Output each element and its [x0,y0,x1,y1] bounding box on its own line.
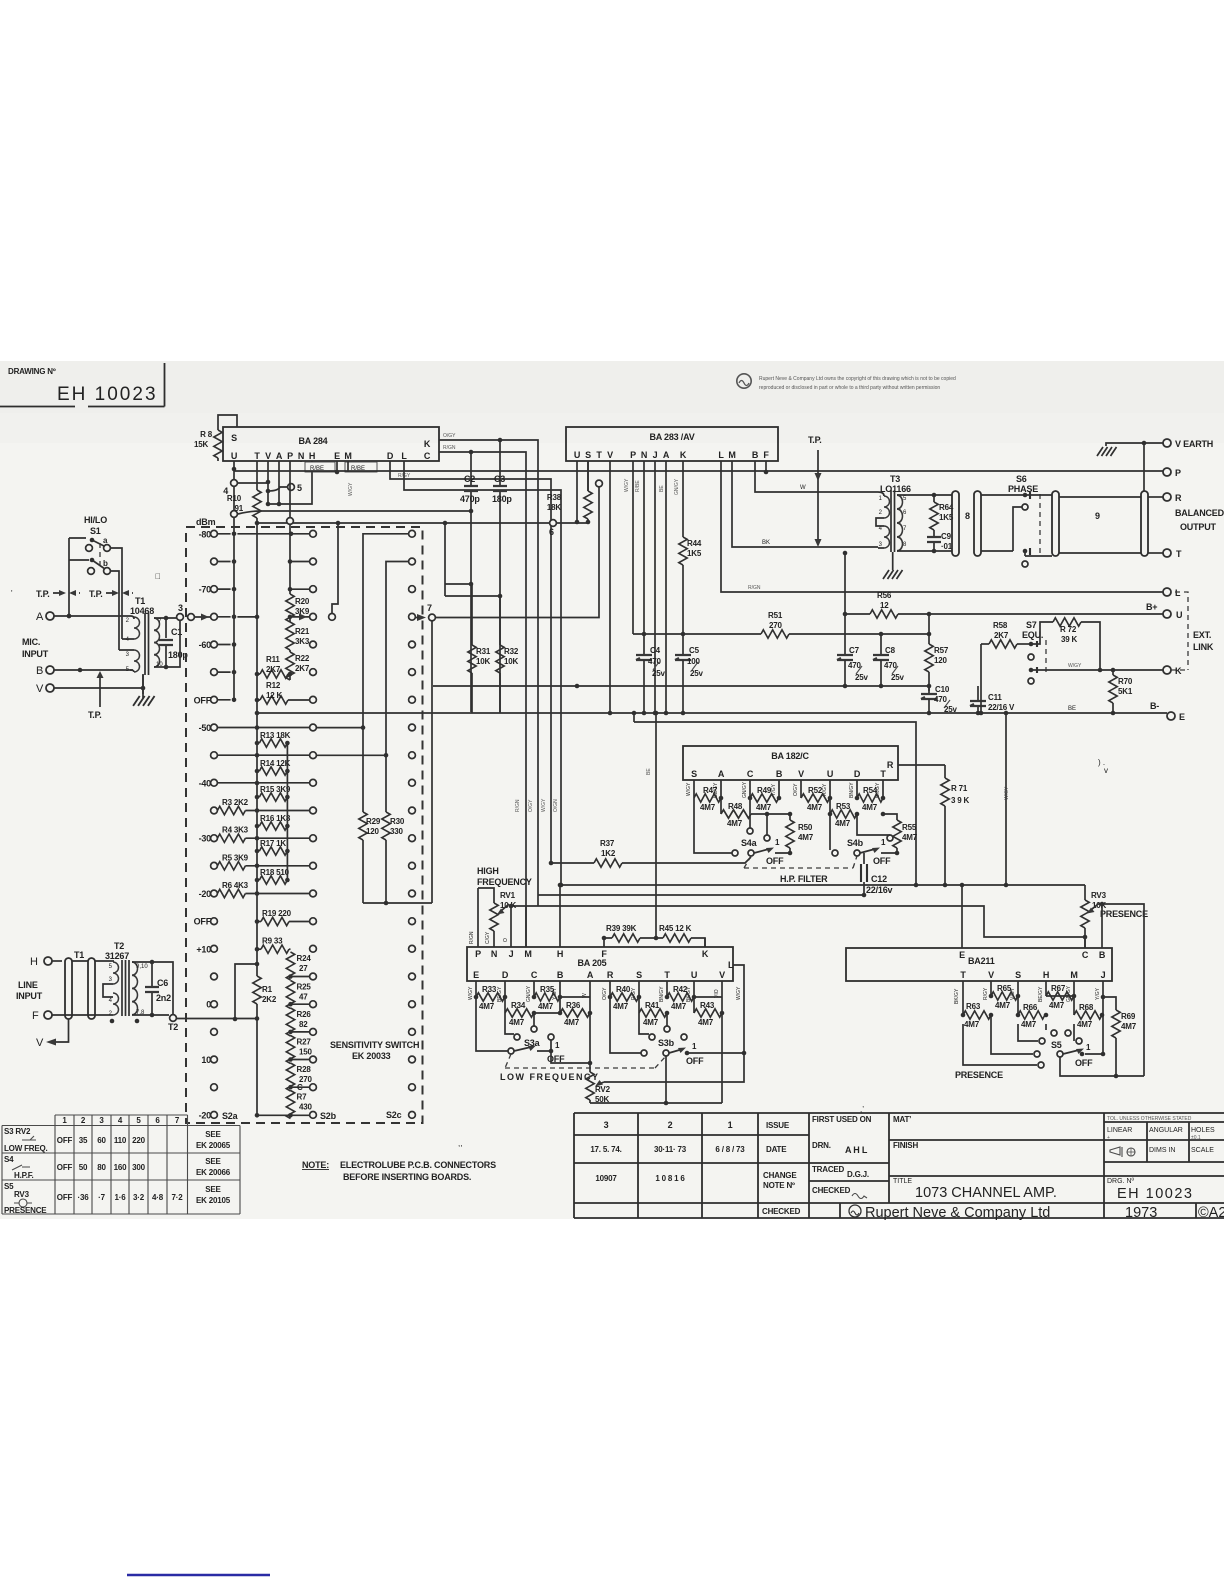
vertical return x432 [431,621,433,903]
wire node6 to U line [556,522,577,524]
svg-text:R38: R38 [547,493,562,502]
svg-text:S: S [1015,970,1021,980]
BA283 pin letters [574,450,770,460]
svg-text:2K7: 2K7 [295,664,310,673]
svg-text:C11: C11 [988,693,1002,702]
wire S5 bottom loop [1060,1057,1144,1076]
svg-text:R: R [887,760,894,770]
B- long bus [257,712,1167,714]
resistor R47 4M7 [694,780,721,812]
T3 primary winding upper [884,496,890,518]
resistor R48 4M7 [719,796,751,828]
switch S1b [88,558,111,575]
wire x845 down to C7 [844,614,846,655]
svg-text:7: 7 [427,603,432,613]
svg-text:C9: C9 [941,532,952,541]
svg-text:SEE: SEE [205,1185,221,1194]
svg-text:ISSUE: ISSUE [766,1121,790,1130]
wire R10 bottom to circle 6 line [257,518,553,530]
svg-text:R 72: R 72 [1060,625,1077,634]
resistor R28 270 [286,1063,312,1091]
boxed label R/BE under N H [305,462,335,472]
svg-text:4M7: 4M7 [564,1018,580,1027]
svg-text:R16 1K8: R16 1K8 [260,814,291,823]
svg-text:T: T [880,769,886,779]
wire T line junction down to B+ line [844,553,846,614]
svg-text:B: B [36,665,43,677]
bottom row wire to S2b [257,1114,310,1116]
wire T2 feed into bus [177,1018,257,1020]
svg-text:B: B [776,769,783,779]
svg-text:R7: R7 [297,1093,308,1102]
svg-text:4M7: 4M7 [807,803,823,812]
svg-text:M: M [728,450,735,460]
row S3 RV2 label [4,1127,48,1153]
resistor R14 12K [255,759,291,775]
svg-text:R66: R66 [1023,1003,1038,1012]
bus y895 [511,895,864,906]
svg-text:-70: -70 [199,585,212,595]
wire V pin down [267,461,269,504]
wire R50 bottom into S4a node [789,848,791,853]
test circle on U line [231,480,238,487]
wire L pin to O/GN vertical [404,461,561,885]
svg-text:SENSITIVITY SWITCH: SENSITIVITY SWITCH [330,1040,419,1050]
ladder right rail [286,743,288,880]
svg-text:K: K [680,450,687,460]
svg-text:4M7: 4M7 [1121,1022,1137,1031]
dates row [590,1145,745,1154]
wire T terminal [1148,552,1163,554]
svg-text:BE: BE [646,768,652,775]
node 6 circle [550,520,557,527]
resistor R16 1K8 [255,814,291,830]
row 11 circles [199,834,416,844]
resistor R56 12 on B+ line [845,591,1163,618]
svg-text:R13 18K: R13 18K [260,731,291,740]
svg-text:-20: -20 [199,889,212,899]
svg-text:4M7: 4M7 [698,1018,714,1027]
resistor R24 27 [286,952,311,980]
svg-text:v: v [1104,766,1108,775]
svg-text:L: L [718,450,724,460]
svg-text:120: 120 [934,656,947,665]
svg-text:82: 82 [299,1020,308,1029]
row -80 wire across to right circle [237,533,309,535]
svg-text:S4a: S4a [741,838,758,848]
arrow T.P. left [53,592,80,594]
wire F pin to P line [765,461,767,472]
T1 core [145,613,149,675]
wire from U circle514 to C2 [238,511,471,514]
switch S5 [1057,1043,1103,1068]
svg-text:U: U [827,769,833,779]
svg-text:35: 35 [79,1136,88,1145]
resistor R19 220 [255,909,310,926]
row 5 circles [211,669,416,676]
BA284 bottom pin letters [231,451,408,461]
wire E pin down to long line [336,461,338,472]
svg-text:R4 3K3: R4 3K3 [222,826,249,835]
terminal E [1167,712,1175,720]
svg-text:4M7: 4M7 [727,819,743,828]
svg-text:R1: R1 [262,985,273,994]
resistor R67 4M7 [1044,981,1074,1017]
svg-text:S: S [691,769,697,779]
resistor R13 18K [255,731,291,747]
svg-text:BK: BK [762,540,770,546]
svg-text:J: J [653,450,658,460]
capacitor C9 .01 [927,530,953,553]
svg-text:OFF: OFF [686,1056,704,1066]
row 17 circles [206,1000,415,1010]
wire RV2 bottom rail [590,1102,722,1104]
wire J pin down [1102,981,1104,1054]
svg-text:4M7: 4M7 [671,1002,687,1011]
wire L pin bracket loop [608,965,744,1082]
BA182 pin letters [691,769,886,779]
svg-text:430: 430 [299,1103,312,1112]
svg-text:R47: R47 [703,786,718,795]
svg-text:-40: -40 [199,778,212,788]
row 14 circles [194,917,416,927]
svg-text:OFF: OFF [873,856,891,866]
svg-text:R41: R41 [645,1001,660,1010]
svg-text:H.P.F.: H.P.F. [14,1171,34,1180]
svg-text:SEE: SEE [205,1157,221,1166]
svg-text:reproduced or disclosed in pa: reproduced or disclosed in part or whole… [759,385,940,391]
svg-text:-30: -30 [199,834,212,844]
svg-text:R10: R10 [227,494,242,503]
svg-text:B-: B- [1150,701,1159,711]
svg-text:BA 284: BA 284 [299,436,328,446]
wire rows -50/-40 region across [217,728,309,783]
svg-text:HIGH: HIGH [477,866,499,876]
svg-text:R34: R34 [511,1001,526,1010]
svg-text:R 8: R 8 [200,430,213,439]
ground under T3 [883,570,903,579]
svg-text:470: 470 [934,695,947,704]
wire M pin down [347,461,349,472]
terminal R [1163,493,1171,501]
svg-text:EK 20033: EK 20033 [352,1051,391,1061]
wire R pin to R71 [898,764,945,766]
svg-text:C5: C5 [689,646,700,655]
junction A line RV2 [588,1061,593,1066]
wire P pin down through rows [289,461,291,594]
svg-text:LOW FREQ.: LOW FREQ. [4,1144,48,1153]
svg-text:NOTE Nº: NOTE Nº [763,1181,795,1190]
T3 core [891,490,895,552]
svg-text:V: V [719,970,725,980]
wire M pin tail circles [639,1013,649,1034]
resistor R10 91 [227,490,261,518]
row S5 values [57,1193,183,1202]
svg-text:S5: S5 [4,1182,14,1191]
svg-text:4M7: 4M7 [479,1002,495,1011]
svg-text:4M7: 4M7 [756,803,772,812]
resistor R34 4M7 [503,981,534,1027]
connector circle 5 [288,484,295,491]
svg-text:T.P.: T.P. [36,589,50,599]
svg-text:R19 220: R19 220 [262,909,292,918]
wire K to long vertical O/GY [439,440,538,906]
svg-text:M: M [1070,970,1077,980]
svg-text:4M7: 4M7 [902,833,918,842]
amplifier card BA283/AV [566,427,778,461]
wire M pin down to T3 BK line [732,461,878,547]
resistor R63 4M7 [961,981,991,1029]
svg-text:R52: R52 [808,786,823,795]
resistor R36 4M7 [534,981,592,1027]
resistor R27 150 [286,1036,312,1064]
svg-text:22/16 V: 22/16 V [988,703,1015,712]
svg-text:FREQUENCY: FREQUENCY [477,877,532,887]
junction O/GN to bus885 [559,883,564,888]
svg-text:A: A [276,451,283,461]
circle on BA283 T line [596,480,603,487]
resistor R35 4M7 [532,981,560,1015]
wire H pin up to bus885 [559,885,561,947]
svg-text:O/GY: O/GY [443,433,456,439]
bus y885 [561,884,1085,886]
svg-text:BA 182/C: BA 182/C [771,751,809,761]
svg-text:PRESENCE: PRESENCE [1100,909,1148,919]
svg-text:HOLES: HOLES [1191,1127,1215,1134]
row 16 circles [211,973,416,980]
RV1 bracket from P line [478,888,494,947]
wire E pin riser [961,885,963,948]
svg-text:4M7: 4M7 [1077,1020,1093,1029]
resistor R5 3K9 [217,853,309,870]
resistor R37 1K2 [549,839,751,867]
svg-text:R3 2K2: R3 2K2 [222,798,249,807]
svg-text:HI/LO: HI/LO [84,515,107,525]
svg-text:R 71: R 71 [951,784,968,793]
svg-text:C: C [297,1083,303,1092]
svg-text:4·8: 4·8 [152,1193,164,1202]
wire S3b pivot down to wiper rail [665,1056,667,1103]
screen bar 2 [88,958,95,1019]
resistor R55 4M7 [881,812,918,848]
svg-text:FINISH: FINISH [893,1141,918,1150]
wire V pin down [721,981,723,1103]
svg-text:V: V [36,1037,44,1049]
svg-text:10468: 10468 [130,606,154,616]
svg-text:18K: 18K [547,503,561,512]
svg-text:ANGULAR: ANGULAR [1149,1127,1183,1134]
svg-text:160: 160 [114,1163,127,1172]
BA205 bottom pin letters [473,970,725,980]
rotated labels under BA211 pins [954,985,1101,1004]
bus y906 [538,906,1085,937]
terminal P [1163,468,1171,476]
wire C pin tail [533,1013,535,1026]
wire T pin tail [666,1013,668,1026]
wire BE vertical to R39 junction [655,713,657,938]
resistor R11 2K7 [255,655,293,678]
connector bar 8b [974,491,981,556]
HP filter dashed gang line [744,856,857,868]
svg-text:N: N [641,450,647,460]
svg-text:R54: R54 [863,786,878,795]
wire H through bars [72,960,114,962]
wire R8 top hook to S pin [218,415,237,461]
svg-text:A: A [663,450,670,460]
svg-text:R33: R33 [482,985,497,994]
junction V 491 [266,489,271,494]
wire BA283 U pin down [577,461,588,523]
wire S pin tail [1018,1024,1038,1041]
svg-text:DIMS IN: DIMS IN [1149,1147,1175,1154]
transformer T1 primary lower winding [134,650,140,672]
S3 gang dashed [505,1054,666,1068]
svg-text:W/GY: W/GY [686,782,692,796]
wire D pin tail to circle [857,814,890,835]
resistor R9 33 [255,937,291,954]
wire earth junction down to output screen [1143,443,1145,491]
svg-text:4M7: 4M7 [538,1002,554,1011]
T1 pin numbers [126,618,130,673]
svg-text:R48: R48 [728,802,743,811]
svg-text:BE: BE [1068,706,1076,712]
svg-text:L: L [1175,588,1181,598]
svg-text:17. 5. 74.: 17. 5. 74. [590,1145,621,1154]
potentiometer RV3 10K [1081,885,1107,948]
wire U pin down [233,461,235,530]
amplifier card BA205 [467,947,733,981]
wire J pin down to B- bus [654,461,656,713]
svg-text:F: F [601,949,607,959]
svg-text:OFF: OFF [194,695,212,705]
resistor R40 4M7 [610,981,639,1011]
wire circle4 to V line [238,482,268,484]
BA205 top pin letters [475,949,709,959]
wire RV3 wiper to right loop [1098,904,1144,1076]
wire J pin up to bus906 [510,906,512,947]
svg-text:BA 205: BA 205 [578,958,607,968]
svg-text:-20: -20 [199,1110,212,1120]
resistor R64 1K5 [930,493,954,530]
wire T1 core to ground [142,675,144,694]
wire S1 left rail [69,538,89,616]
svg-text:B: B [752,450,759,460]
svg-text:GN/GY: GN/GY [526,985,532,1002]
svg-text:4M7: 4M7 [1049,1001,1065,1010]
drawing number box [0,363,165,407]
svg-text:2K7: 2K7 [266,665,281,674]
svg-text:R/GN: R/GN [443,445,456,451]
svg-text:EK 20065: EK 20065 [196,1141,231,1150]
svg-text:PRESENCE: PRESENCE [4,1206,47,1215]
svg-text:C3: C3 [494,474,505,484]
svg-text:H.P. FILTER: H.P. FILTER [780,874,828,884]
svg-text:4M7: 4M7 [798,833,814,842]
svg-text:22/16v: 22/16v [866,885,893,895]
wire y504 run to H/N riser [268,471,312,504]
junction U at 469 [232,467,237,472]
T3 primary pin numbers [879,496,883,548]
capacitor C6 2n2 [145,962,171,1015]
svg-text:K: K [1175,666,1182,676]
resistor R65 4M7 [989,981,1018,1017]
svg-text:D.G.J.: D.G.J. [847,1170,869,1179]
resistor R44 1K5 [679,537,702,655]
svg-text:T1: T1 [135,596,145,606]
svg-text:3: 3 [604,1120,609,1130]
wire R55 bottom into S4b node [896,848,898,853]
svg-text:25v: 25v [690,669,703,678]
svg-text:DRAWING Nº: DRAWING Nº [8,367,56,376]
svg-text:OFF: OFF [57,1163,73,1172]
svg-text:1: 1 [728,1120,733,1130]
svg-text:C2: C2 [464,474,475,484]
svg-text:15K: 15K [194,440,208,449]
svg-text:P: P [1175,468,1181,478]
svg-text:MAT’: MAT’ [893,1115,911,1124]
capacitor C11 22/16V [970,686,1015,715]
capacitor C12 [861,853,887,895]
svg-text:R22: R22 [295,654,310,663]
wire S6 to bar 9 [1025,495,1052,556]
svg-text:H: H [1043,970,1049,980]
T.P. bottom vertical with arrow [99,677,101,707]
svg-text:A: A [587,970,594,980]
svg-text:60: 60 [97,1136,106,1145]
svg-text:T.P.: T.P. [808,435,822,445]
svg-text:470: 470 [648,657,661,666]
amplifier card BA284 [223,427,439,461]
svg-text:4M7: 4M7 [1021,1020,1037,1029]
resistor R38 18K [547,461,592,522]
row 21 circles [199,1110,416,1120]
resistor R49 4M7 [748,780,782,812]
svg-text:R68: R68 [1079,1003,1094,1012]
svg-text:R40: R40 [616,985,631,994]
svg-text:R50: R50 [798,823,813,832]
resistor R69 4M7 [1103,997,1137,1076]
resistor R30 330 [382,562,409,904]
svg-text:S3b: S3b [658,1038,675,1048]
svg-text:V: V [265,451,271,461]
row S4 label [4,1155,34,1180]
svg-text:P: P [475,949,481,959]
lower bus vertical x257 (T net) [256,530,258,1115]
svg-text:R28: R28 [297,1065,312,1074]
row 3 arrow to right circle [237,616,309,618]
svg-text:H: H [309,451,315,461]
potentiometer RV2 50K [586,1063,611,1104]
terminal U [1163,610,1171,618]
svg-text:BK/GY: BK/GY [954,988,960,1004]
svg-text:-60: -60 [199,640,212,650]
wire node3 arrow into box [195,616,214,618]
svg-text:R11: R11 [266,655,280,664]
svg-text:C8: C8 [885,646,896,655]
svg-text:220: 220 [132,1136,145,1145]
svg-text:W/GY: W/GY [541,798,547,812]
resistor R51 270 on P feed line [633,611,929,638]
svg-text:C: C [747,769,754,779]
svg-text:4M7: 4M7 [509,1018,525,1027]
wire M pin junction to R67 [1046,995,1074,997]
svg-text:SEE: SEE [205,1130,221,1139]
terminal T [1163,549,1171,557]
svg-text:GN/GY: GN/GY [742,781,748,798]
svg-text:R44: R44 [687,539,702,548]
wire primary ends [876,492,884,548]
svg-text:9: 9 [1095,511,1100,521]
